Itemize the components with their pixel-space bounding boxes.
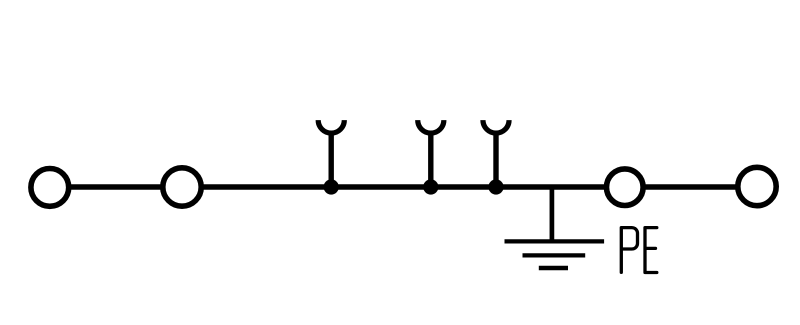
tap fork 2 stem xyxy=(428,131,433,187)
tap fork 1 cup xyxy=(318,120,344,133)
terminal circle 4 (far right) xyxy=(738,167,776,205)
junction node 1 xyxy=(324,179,339,194)
wire: ground drop xyxy=(550,187,555,241)
junction node 2 xyxy=(423,179,438,194)
terminal circle 1 (far left) xyxy=(31,169,69,207)
tap fork 3 cup xyxy=(483,120,509,133)
label PE letter E xyxy=(645,228,657,273)
terminal circle 3 (inner right) xyxy=(607,169,644,206)
tap fork 1 stem xyxy=(329,131,334,187)
ground bar middle xyxy=(523,253,586,257)
tap fork 2 cup xyxy=(418,120,444,133)
junction node 3 xyxy=(488,179,503,194)
label PE letter P xyxy=(621,228,637,273)
wire: main horizontal bus xyxy=(50,184,757,189)
terminal circle 2 (inner left) xyxy=(163,168,201,206)
tap fork 3 stem xyxy=(493,131,498,187)
ground bar top xyxy=(505,239,605,243)
ground bar bottom xyxy=(539,266,568,270)
